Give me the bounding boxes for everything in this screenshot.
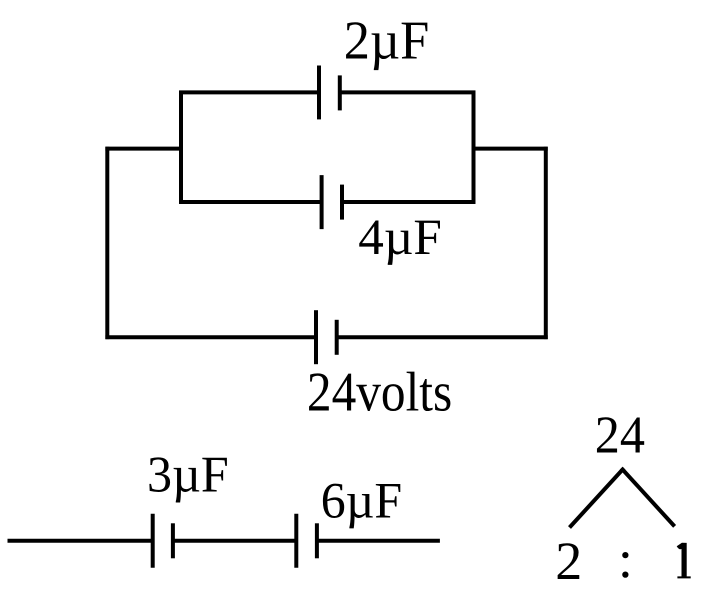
svg-text:2: 2	[555, 531, 582, 591]
svg-text:24: 24	[595, 406, 645, 465]
wire: second branch left segment	[179, 200, 322, 204]
capacitor C4 6uF	[296, 514, 317, 568]
wire: left tap to outer loop	[105, 147, 181, 151]
wire: series circuit left segment	[8, 539, 153, 543]
capacitor C3 3uF	[153, 514, 173, 568]
svg-text:2µF: 2µF	[344, 10, 430, 71]
battery V1 24 volts	[316, 310, 337, 364]
wire: parallel block left vertical	[179, 91, 183, 204]
wire: top branch right segment	[340, 90, 476, 94]
wire: tree right branch line	[621, 468, 674, 526]
wire: outer loop left vertical	[105, 147, 109, 339]
wire: series circuit middle segment	[173, 539, 296, 543]
svg-text::: :	[618, 529, 633, 589]
wire: bottom branch right segment	[337, 335, 548, 339]
node: tree right leaf value 1	[677, 543, 691, 579]
svg-text:4µF: 4µF	[358, 210, 441, 266]
svg-text:24volts: 24volts	[307, 362, 452, 424]
wire: second branch right segment	[342, 200, 475, 204]
svg-text:6µF: 6µF	[321, 473, 402, 530]
capacitor C2 4uF	[322, 175, 342, 229]
svg-text:3µF: 3µF	[147, 447, 229, 504]
wire: tree left branch line	[570, 468, 624, 527]
wire: series circuit right segment	[317, 539, 440, 543]
wire: top branch left segment	[179, 90, 319, 94]
wire: bottom branch left segment	[105, 335, 316, 339]
capacitor C1 2uF	[319, 66, 340, 120]
wire: right tap to outer loop	[474, 147, 548, 151]
wire: parallel block right vertical	[472, 91, 476, 204]
wire: outer loop right vertical	[544, 147, 548, 339]
